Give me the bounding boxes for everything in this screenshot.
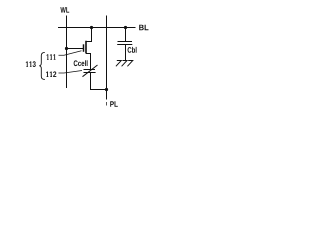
wire capacitor to PL [91, 73, 107, 90]
leader line 111 [59, 51, 82, 55]
wire gate (WL to transistor gate) [67, 48, 84, 50]
net label BL [139, 25, 148, 31]
node: BL-Cbl junction [124, 26, 127, 29]
node: drain-BL junction [90, 26, 93, 29]
ground [116, 61, 133, 67]
wire Cbl to ground [125, 45, 127, 61]
label 111 (transistor ref) [47, 54, 56, 60]
wire BL to Cbl [125, 28, 127, 42]
wire PL (plate line, vertical) [106, 16, 108, 100]
label 113 (memory cell ref) [26, 61, 36, 67]
net label WL [60, 7, 69, 13]
transistor 111 (cell access transistor) [84, 28, 92, 70]
label 112 (capacitor ref) [46, 71, 56, 77]
node: gate-WL junction [65, 47, 68, 50]
value label Cbl [128, 47, 137, 53]
wire WL (word line, vertical) [66, 16, 68, 89]
wire BL (bit line, horizontal) [58, 27, 136, 29]
node: PL junction [105, 88, 108, 91]
capacitor Cbl (bit-line capacitance) [117, 42, 132, 45]
capacitor Ccell (112, ferroelectric cell capacitor) [83, 65, 98, 77]
net label PL [110, 101, 118, 107]
value label Ccell [74, 60, 88, 66]
brace 113 [39, 52, 45, 79]
leader line 112 [59, 71, 83, 74]
